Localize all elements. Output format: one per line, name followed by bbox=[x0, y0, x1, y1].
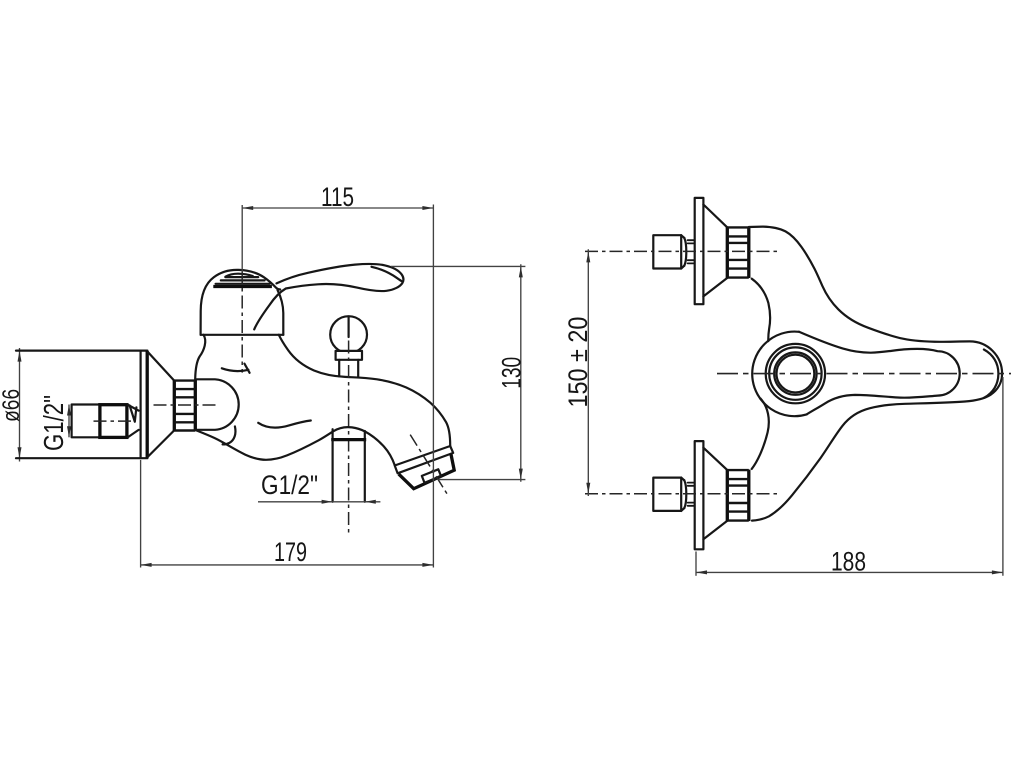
top escutcheon cone bbox=[703, 205, 727, 297]
leader G1/2 outlet bbox=[258, 500, 380, 504]
top arm inner edge bbox=[752, 279, 770, 342]
bottom escutcheon cone bbox=[703, 448, 727, 540]
body bottom and spout underside bbox=[195, 427, 395, 465]
top taper neck bbox=[681, 235, 694, 268]
dimension ø66 line bbox=[18, 348, 22, 462]
diverter stem bbox=[339, 360, 358, 377]
body outer outline top arm to cap to bottom arm bbox=[749, 227, 1002, 521]
extension lines ø66 / wall plate top and bottom edges bbox=[16, 351, 147, 459]
shower outlet connector bbox=[331, 429, 366, 441]
svg-text:G1/2": G1/2" bbox=[261, 470, 318, 500]
central blob around outlet bbox=[752, 332, 806, 417]
dimension 115 bbox=[242, 206, 433, 210]
top connector centerline bbox=[585, 250, 777, 252]
outlet rings bbox=[766, 344, 825, 403]
top wall plate bbox=[695, 198, 704, 304]
decorative arc below boss bbox=[223, 426, 236, 444]
svg-text:115: 115 bbox=[321, 182, 354, 212]
nipple taper cone bbox=[128, 405, 139, 437]
svg-text:G1/2": G1/2" bbox=[38, 395, 69, 451]
top threaded collar bbox=[727, 227, 749, 278]
bottom hex nut bbox=[653, 478, 681, 511]
dimension 150 ± 20 bbox=[586, 249, 590, 496]
diverter ball bbox=[330, 316, 367, 353]
bottom arm inner edge bbox=[752, 399, 769, 469]
handle axis centerline bbox=[241, 271, 243, 373]
escutcheon threaded collar (left view) bbox=[174, 380, 195, 431]
extension lines 130 bbox=[391, 266, 525, 479]
extension line 188 left bbox=[695, 552, 697, 576]
inlet boss (left view) bbox=[195, 379, 238, 430]
extension line 188 right bbox=[1002, 377, 1004, 576]
handle capsule inner outline bbox=[799, 332, 960, 415]
bottom taper neck bbox=[681, 478, 694, 511]
aerator band bbox=[395, 446, 454, 473]
aerator axis centerline bbox=[410, 435, 448, 496]
svg-text:ø66: ø66 bbox=[0, 389, 24, 422]
dimension 188 bbox=[696, 570, 1003, 574]
extension line 179 left bbox=[140, 460, 142, 568]
aerator notch bbox=[422, 469, 441, 483]
body right edge and spout top outline bbox=[279, 335, 450, 446]
extension line right (115 / 179) bbox=[432, 205, 434, 568]
nipple pipe bbox=[72, 405, 100, 438]
bottom wall plate bbox=[695, 441, 704, 549]
top hex nut bbox=[653, 235, 681, 268]
decorative wave center bbox=[258, 421, 311, 428]
nipple hex nut bbox=[100, 405, 127, 438]
lever tip inner arc bbox=[372, 267, 402, 281]
svg-text:179: 179 bbox=[274, 538, 307, 568]
handle dome body right side bbox=[278, 290, 284, 335]
dimension 130 bbox=[519, 264, 523, 482]
svg-text:130: 130 bbox=[496, 357, 526, 389]
escutcheon cone (left view) bbox=[148, 352, 174, 456]
dimension G1/2 nipple bbox=[67, 405, 71, 438]
bottom threaded collar bbox=[727, 470, 749, 521]
diverter / outlet centerline bbox=[348, 318, 350, 338]
extension line 115 left / handle axis top bbox=[241, 205, 243, 272]
svg-text:150 ± 20: 150 ± 20 bbox=[563, 317, 593, 408]
svg-text:188: 188 bbox=[831, 547, 866, 577]
lever handle outline bbox=[254, 264, 403, 329]
wall plate (left view) bbox=[141, 351, 148, 459]
handle base bottom edge bbox=[201, 334, 284, 336]
bottom connector centerline bbox=[585, 493, 777, 495]
diverter collar bbox=[336, 351, 362, 360]
handle dome cap bbox=[201, 270, 281, 335]
escutcheon centerline (left view) bbox=[154, 404, 220, 406]
nipple centerline bbox=[94, 420, 132, 422]
decorative arc upper bbox=[222, 364, 250, 373]
main horizontal centerline bbox=[717, 373, 1011, 375]
cap inner double arc bbox=[984, 350, 999, 398]
shower outlet thread lines bbox=[333, 441, 365, 502]
body left edge bbox=[195, 335, 205, 379]
dimension 179 bbox=[141, 563, 434, 567]
aerator tip box bbox=[399, 454, 455, 489]
